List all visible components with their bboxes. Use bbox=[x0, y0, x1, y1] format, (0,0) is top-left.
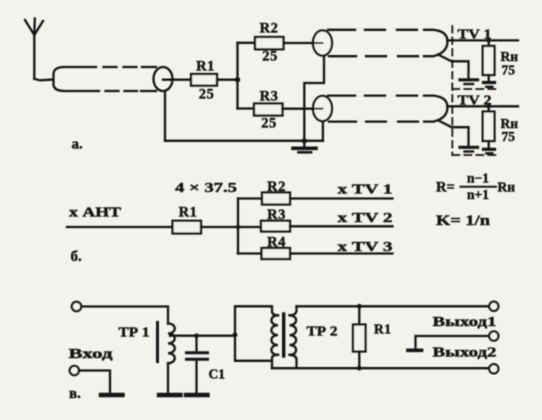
svg-text:TV 1: TV 1 bbox=[458, 27, 492, 42]
dashed boundary TV1 bottom bbox=[452, 88, 500, 90]
wire coax3 shield to ground bbox=[438, 120, 469, 145]
wire coax1 shield down bbox=[164, 91, 166, 141]
ground input bbox=[101, 393, 123, 397]
wire R1 to junction bbox=[217, 79, 238, 81]
svg-text:в.: в. bbox=[69, 386, 81, 402]
ground Rn TV2 bbox=[484, 148, 495, 151]
dashed boundary TV2 bottom bbox=[452, 154, 500, 156]
junction bbox=[236, 225, 240, 229]
svg-text:R4: R4 bbox=[267, 235, 286, 251]
wire ellipse to R1 bbox=[163, 79, 191, 81]
resistor R4 mid bbox=[262, 248, 291, 259]
wire R2 out bbox=[290, 197, 393, 199]
wire TP1 bottom to ground bbox=[167, 363, 169, 393]
ground TP1 bbox=[159, 393, 181, 397]
svg-text:б.: б. bbox=[71, 249, 83, 265]
terminal output bottom bbox=[489, 364, 498, 373]
resistor R1 bbox=[191, 74, 217, 86]
transformer TP2 secondary winding bbox=[290, 315, 297, 355]
wire center conductor coax2 bbox=[314, 42, 323, 44]
terminal output 1 bbox=[489, 302, 498, 311]
wire TV2 line bbox=[447, 105, 518, 107]
terminal input bottom bbox=[70, 366, 79, 375]
svg-text:25: 25 bbox=[199, 87, 215, 103]
wire R3 to coax3 bbox=[283, 108, 323, 110]
svg-text:R1: R1 bbox=[179, 205, 198, 221]
svg-text:K= 1/n: K= 1/n bbox=[436, 213, 490, 229]
wire splitter vertical bbox=[237, 199, 239, 254]
svg-text:Rн: Rн bbox=[498, 180, 516, 195]
svg-text:25: 25 bbox=[261, 116, 277, 132]
wire to R4 bbox=[238, 252, 262, 254]
dashed boundary vertical bbox=[451, 26, 453, 155]
svg-text:R2: R2 bbox=[267, 179, 286, 195]
transformer TP2 primary winding bbox=[271, 315, 278, 355]
wire output2 stub bbox=[416, 336, 490, 348]
ground C1 bbox=[186, 393, 208, 397]
wire tap to TP2 bbox=[170, 335, 235, 337]
wire to R2 bbox=[238, 42, 256, 44]
ground shield TV2 bbox=[460, 146, 478, 149]
svg-text:Выход1: Выход1 bbox=[433, 314, 497, 329]
coax cable 3 body bbox=[328, 96, 448, 122]
svg-text:R3: R3 bbox=[260, 89, 279, 105]
junction C1 bbox=[194, 333, 199, 338]
svg-text:Вход: Вход bbox=[69, 346, 113, 361]
wire coax2 shield down bbox=[304, 56, 324, 141]
svg-text:х TV 1: х TV 1 bbox=[338, 182, 393, 197]
transformer TP1 core bbox=[156, 323, 159, 362]
wire output top rail bbox=[297, 305, 490, 307]
svg-text:R1: R1 bbox=[196, 59, 215, 75]
wire R3 out bbox=[290, 225, 393, 227]
svg-text:n−1: n−1 bbox=[467, 171, 489, 186]
wire antenna to coax bbox=[34, 79, 53, 81]
resistor R2 bbox=[255, 37, 284, 49]
coax cable 2 end ellipse bbox=[313, 30, 332, 55]
wire coax2 shield to ground bbox=[438, 55, 469, 78]
wire R1 to splitter bbox=[201, 226, 261, 228]
svg-text:TV 2: TV 2 bbox=[458, 93, 492, 108]
capacitor C1 bbox=[195, 336, 197, 352]
wire to R3 bbox=[238, 107, 255, 109]
transformer TP2 core bbox=[282, 314, 285, 356]
resistor R1 mid bbox=[173, 221, 202, 234]
coax cable 1 end ellipse bbox=[154, 67, 173, 91]
wire ANT to R1 bbox=[67, 226, 173, 228]
antenna W1 bbox=[25, 19, 43, 79]
wire R2 to coax2 bbox=[284, 42, 323, 44]
resistor R1 bottom bbox=[358, 306, 360, 324]
svg-text:х TV 3: х TV 3 bbox=[338, 240, 393, 255]
resistor R2 mid bbox=[262, 193, 290, 205]
wire bottom return bbox=[165, 140, 323, 142]
wire secondary top lead bbox=[290, 306, 297, 315]
coax cable 1 body bbox=[54, 67, 157, 91]
svg-text:4 × 37.5: 4 × 37.5 bbox=[175, 181, 237, 196]
ground shield TV1 bbox=[460, 78, 478, 81]
wire top to TP1 bbox=[81, 307, 168, 324]
wire output bottom rail bbox=[272, 367, 489, 369]
junction TP2 in bbox=[233, 332, 238, 337]
svg-text:25: 25 bbox=[262, 49, 278, 65]
junction bbox=[235, 77, 240, 82]
junction R1 top bbox=[357, 304, 362, 309]
svg-text:75: 75 bbox=[502, 129, 516, 144]
resistor R3 mid bbox=[261, 221, 290, 232]
svg-text:n+1: n+1 bbox=[467, 187, 489, 202]
svg-text:R1: R1 bbox=[374, 322, 392, 337]
wire splitter vertical bbox=[236, 43, 238, 109]
wire coax3 shield down bbox=[322, 121, 324, 141]
resistor R3 bbox=[254, 104, 283, 116]
svg-text:ТР 1: ТР 1 bbox=[119, 325, 150, 340]
svg-text:R3: R3 bbox=[267, 207, 286, 223]
resistor Rn TV2 bbox=[488, 106, 490, 111]
wire R4 out bbox=[290, 252, 393, 254]
svg-text:х АНТ: х АНТ bbox=[69, 206, 122, 221]
svg-text:75: 75 bbox=[502, 63, 516, 78]
wire TP2 primary loop bbox=[235, 306, 278, 368]
coax cable 3 end ellipse bbox=[313, 96, 332, 121]
wire secondary bottom lead bbox=[290, 355, 297, 368]
terminal input top bbox=[72, 302, 81, 311]
chassis stub output2 bbox=[408, 348, 422, 352]
coax cable 2 body bbox=[328, 30, 448, 56]
transformer TP1 winding bbox=[168, 324, 175, 364]
resistor Rn TV1 bbox=[488, 40, 490, 46]
junction bbox=[486, 38, 491, 43]
wire TV1 line bbox=[447, 39, 518, 41]
svg-text:ТР 2: ТР 2 bbox=[307, 324, 338, 339]
ground Rn TV1 bbox=[484, 81, 495, 84]
svg-text:R2: R2 bbox=[260, 21, 279, 37]
svg-text:R=: R= bbox=[436, 180, 455, 196]
wire center conductor coax3 bbox=[314, 108, 323, 110]
junction R1 bottom bbox=[357, 366, 362, 371]
terminal output 2 bbox=[489, 331, 498, 340]
wire input bottom to ground bbox=[79, 371, 110, 393]
junction bbox=[302, 138, 307, 143]
svg-text:а.: а. bbox=[72, 137, 84, 153]
svg-text:C1: C1 bbox=[209, 367, 226, 382]
junction bbox=[486, 104, 491, 109]
wire to R2 bbox=[238, 197, 262, 199]
svg-text:х TV 2: х TV 2 bbox=[338, 211, 393, 226]
svg-text:Выход2: Выход2 bbox=[433, 344, 497, 359]
ground main bbox=[303, 141, 305, 147]
